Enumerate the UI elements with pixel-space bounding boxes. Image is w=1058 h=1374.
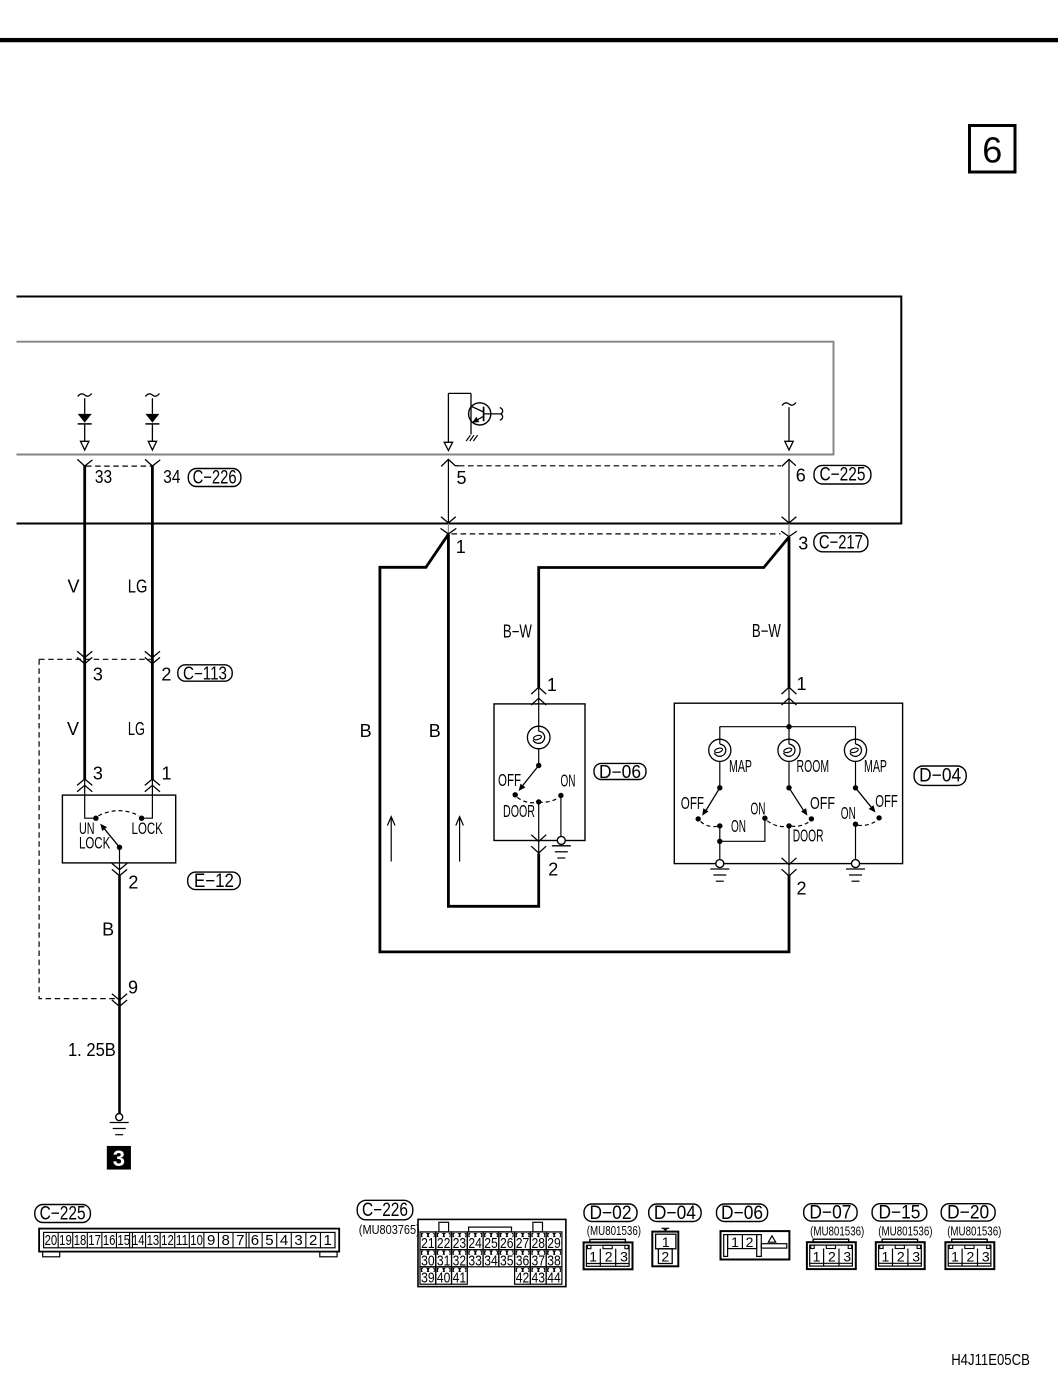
svg-text:2: 2 [796,879,806,899]
svg-text:44: 44 [547,1270,561,1287]
svg-text:(MU801536): (MU801536) [587,1223,641,1238]
switch MAP-left (D-04) [681,785,765,860]
svg-text:33: 33 [95,467,112,487]
svg-text:1: 1 [662,1234,670,1250]
svg-text:2: 2 [161,665,171,685]
connector label E-12 [188,871,241,892]
current arrow (right B wire) [456,817,464,862]
connector label C-225 [814,465,871,486]
svg-text:40: 40 [437,1270,451,1287]
lamp bulb MAP-left (D-04) [709,727,731,788]
connector C-113 pin 2 chevrons [145,651,160,664]
connector C-226 pin 33 chevron [77,459,92,466]
pin label 2 (D-04) [796,879,806,899]
part number MU803765 [359,1222,420,1237]
svg-text:2: 2 [128,872,138,892]
svg-text:3: 3 [843,1249,851,1265]
svg-text:8: 8 [222,1232,230,1249]
node 1 stub [447,524,449,534]
svg-text:B: B [102,919,114,939]
ON contact ground (D-04 left) [710,860,729,882]
svg-text:6: 6 [796,466,806,486]
pin label 1 (E-12) [161,764,171,784]
svg-text:19: 19 [59,1232,72,1249]
svg-text:3: 3 [620,1249,628,1265]
svg-text:D−02: D−02 [590,1203,632,1224]
lamp bulb (D-06) [527,726,550,749]
svg-text:10: 10 [190,1232,203,1249]
svg-text:14: 14 [132,1232,145,1249]
svg-text:H4J11E05CB: H4J11E05CB [951,1352,1030,1369]
DOOR contact wire (D-06) [538,802,540,855]
diode D1 (pin33 drive) [78,394,92,451]
wire label V (lower) [67,719,79,739]
svg-text:OFF: OFF [498,770,521,790]
diode D2 (pin34 drive) [145,394,159,451]
pin label 1 (C-217) [456,537,466,557]
page number box 6 [970,126,1016,173]
svg-text:B−W: B−W [503,622,532,642]
svg-text:V: V [67,577,79,597]
svg-text:1: 1 [456,537,466,557]
svg-text:1: 1 [796,674,806,694]
svg-text:C−226: C−226 [362,1200,408,1221]
svg-text:15: 15 [117,1232,130,1249]
C-217 dashed connector line [452,533,781,535]
connector label C-226 [188,468,241,489]
svg-text:(MU801536): (MU801536) [947,1224,1001,1239]
svg-text:C−225: C−225 [819,465,865,486]
svg-text:1. 25B: 1. 25B [68,1040,116,1060]
svg-text:V: V [67,719,79,739]
dashed harness boundary [39,659,116,998]
connector label D-20 [941,1202,995,1223]
connector D-04 pinout [652,1228,678,1266]
svg-text:C−225: C−225 [40,1204,86,1225]
svg-text:D−20: D−20 [947,1202,989,1223]
ground E-12 wire [110,1114,129,1135]
D-04 pin 2 chevrons [782,858,797,876]
switch (D-06) [498,766,576,821]
svg-text:(MU801536): (MU801536) [810,1224,864,1239]
svg-text:1: 1 [882,1249,890,1265]
connector D-02 pinout [584,1239,633,1269]
connector C-225 pin 6 arrow [782,459,796,523]
inner control-unit box [17,342,834,455]
pin label 2 (E-12) [128,872,138,892]
svg-text:3: 3 [93,665,103,685]
svg-text:D−07: D−07 [809,1202,851,1223]
svg-text:12: 12 [161,1232,174,1249]
part number MU801536 (D-02) [587,1223,641,1238]
connector label D-07 [804,1202,857,1223]
svg-text:ON: ON [731,816,746,836]
switch ROOM (D-04) [751,785,836,876]
svg-text:OFF: OFF [875,791,898,811]
svg-text:9: 9 [128,977,138,997]
C-113 dashed connector line [39,658,151,660]
svg-text:3: 3 [912,1249,920,1265]
svg-text:34: 34 [163,467,180,487]
svg-text:LG: LG [128,719,145,739]
connector label C-226 (bottom) [357,1200,413,1221]
svg-text:1: 1 [324,1232,332,1249]
svg-text:B: B [429,721,441,741]
wire label B-W (left) [503,622,532,642]
svg-text:9: 9 [207,1232,215,1249]
svg-text:ROOM: ROOM [797,756,830,776]
connector label C-217 [814,532,868,553]
svg-text:1: 1 [731,1234,739,1250]
pin label 2 (C-113) [161,665,171,685]
svg-text:OFF: OFF [810,793,835,813]
wire label B-W (right) [752,621,781,641]
part number MU801536 (D-20) [947,1224,1001,1239]
svg-text:D−04: D−04 [654,1203,696,1224]
connector D-15 pinout [876,1239,925,1269]
ground marker 3 [107,1146,131,1171]
connector D-20 pinout [945,1239,994,1269]
svg-text:C−226: C−226 [193,468,237,489]
svg-text:5: 5 [456,468,466,488]
lamp label ROOM [797,756,830,776]
svg-text:33: 33 [468,1252,482,1269]
svg-text:LOCK: LOCK [79,834,111,853]
connector C-217 pin 1 chevron [441,528,457,534]
svg-text:(MU801536): (MU801536) [878,1224,932,1239]
svg-text:2: 2 [605,1249,613,1265]
connector label D-04 (bottom) [649,1203,701,1224]
svg-text:2: 2 [828,1249,836,1265]
pin label 6 [796,466,806,486]
svg-text:DOOR: DOOR [503,801,535,821]
svg-text:(MU803765): (MU803765) [359,1222,420,1237]
pin label 3 (E-12) [93,764,103,784]
part number MU801536 (D-07) [810,1224,864,1239]
svg-text:39: 39 [421,1270,435,1287]
D-04 pin 1 chevrons [782,687,797,705]
transistor Q1 (lamp driver) [444,393,502,450]
svg-text:C−217: C−217 [819,532,863,553]
wire label B (left) [360,721,372,741]
svg-text:D−06: D−06 [599,762,641,782]
svg-text:D−04: D−04 [919,766,961,787]
wire: node3 to D-06 feed (B-W left) [539,537,789,688]
connector label D-04 [914,766,966,787]
body connector pin 9 chevrons [112,994,127,1007]
svg-text:1: 1 [951,1249,959,1265]
node 3 stub [788,524,790,537]
svg-text:41: 41 [453,1270,467,1287]
E-12 pin 2 chevrons [112,863,127,875]
lamp-switch link (D-06) [536,749,541,768]
svg-text:3: 3 [982,1249,990,1265]
connector C-225 pin 5 arrow [441,459,459,523]
wire label 1.25B [68,1040,116,1060]
pin label 9 [128,977,138,997]
page top rule [0,38,1058,42]
svg-text:35: 35 [500,1252,514,1269]
ON contact ground (D-06) [552,796,571,859]
connector C-225 pinout [39,1229,339,1257]
connector C-217 pin 3 chevron [781,531,797,537]
svg-text:17: 17 [88,1232,101,1249]
lamp label MAP (left) [729,756,752,776]
svg-text:2: 2 [897,1249,905,1265]
svg-text:1: 1 [547,675,557,695]
svg-text:34: 34 [484,1252,498,1269]
svg-text:43: 43 [532,1270,546,1287]
wire label B (right) [429,721,441,741]
svg-text:5: 5 [265,1232,273,1249]
svg-text:OFF: OFF [681,793,704,813]
lamp bulb ROOM (D-04) [778,727,800,788]
svg-text:6: 6 [251,1232,259,1249]
svg-text:ON: ON [561,771,576,791]
svg-text:DOOR: DOOR [793,826,824,846]
switch MAP-right (D-04) [841,785,898,860]
svg-text:1: 1 [813,1249,821,1265]
svg-text:42: 42 [516,1270,530,1287]
connector label D-15 [872,1202,927,1223]
wire: node3 to D-04 feed (B-W right) [788,537,791,688]
wire label LG (upper) [128,577,148,597]
connector label D-06 (bottom) [717,1203,768,1224]
svg-text:MAP: MAP [864,756,887,776]
svg-text:13: 13 [147,1232,160,1249]
connector label C-225 (bottom) [35,1204,91,1225]
key cylinder switch E-12 [62,777,175,877]
svg-text:2: 2 [967,1249,975,1265]
svg-text:MAP: MAP [729,756,752,776]
svg-text:ON: ON [841,803,856,823]
squiggle arrow (room lamp feed) [782,403,796,451]
connector D-07 pinout [807,1239,856,1269]
wire B (E-12 ground) [118,876,121,1114]
svg-text:1: 1 [161,764,171,784]
E-12 pin 1 chevrons [145,779,160,792]
connector C-226 pin 34 chevron [145,459,160,466]
connector C-113 pin 3 chevrons [77,651,92,664]
lamp bulb MAP-right (D-04) [844,727,866,788]
svg-text:11: 11 [176,1232,189,1249]
C-226 dashed connector line [86,465,151,467]
lamp label MAP (right) [864,756,887,776]
svg-text:3: 3 [294,1232,302,1249]
connector label D-06 [594,762,646,782]
current arrow (left B wire) [387,817,395,862]
svg-text:C−113: C−113 [183,664,227,684]
wire V (pin33 to E-12) [83,466,86,780]
pin label 3 (C-217) [798,534,808,554]
svg-text:1: 1 [589,1249,597,1265]
svg-text:16: 16 [103,1232,116,1249]
svg-text:18: 18 [74,1232,87,1249]
C-217 pin 1 chevron above [441,517,456,523]
connector D-06 pinout [721,1231,790,1259]
part number MU801536 (D-15) [878,1224,932,1239]
room lamp D-06 box [494,687,585,841]
ETACS-ECU outer box [17,297,902,524]
svg-text:E−12: E−12 [194,871,234,892]
pin label 1 (D-06) [547,675,557,695]
svg-text:2: 2 [548,860,558,880]
svg-text:B−W: B−W [752,621,781,641]
D-06 pin 1 chevrons [531,687,546,705]
wire: node1 to ground run (left B wire) [380,534,789,952]
room lamp D-04 box [674,687,902,864]
wire LG (pin34 to E-12) [151,466,154,780]
C-217 pin 3 chevron above [782,517,797,523]
C-225 dashed connector line [459,465,781,467]
pin label 5 [456,468,466,488]
svg-text:2: 2 [309,1232,317,1249]
D-06 pin 2 chevrons [531,835,546,853]
svg-text:3: 3 [798,534,808,554]
svg-text:7: 7 [236,1232,244,1249]
wire label LG (lower) [128,719,145,739]
svg-text:4: 4 [280,1232,288,1249]
svg-text:D−06: D−06 [721,1203,763,1224]
svg-text:LOCK: LOCK [132,819,164,838]
wire label V (upper) [67,577,79,597]
svg-text:ON: ON [751,799,766,819]
pin label 2 (D-06) [548,860,558,880]
svg-text:6: 6 [982,129,1002,170]
pin label 1 (D-04) [796,674,806,694]
svg-text:3: 3 [113,1146,125,1171]
connector label C-113 [178,664,232,684]
svg-text:3: 3 [93,764,103,784]
wire: node1 down / D-06 return (right B wire) [448,534,538,906]
svg-text:D−15: D−15 [878,1202,920,1223]
svg-text:20: 20 [45,1232,58,1249]
svg-text:2: 2 [661,1248,669,1264]
connector label D-02 [584,1203,637,1224]
svg-text:B: B [360,721,372,741]
ON contact ground (D-04 right) [846,860,865,882]
svg-text:LG: LG [128,577,148,597]
wire label B (ground wire) [102,919,114,939]
E-12 pin 3 chevrons [77,779,92,792]
pin label 3 (C-113) [93,665,103,685]
svg-text:2: 2 [746,1234,754,1250]
document number [951,1352,1030,1369]
pin label 33 [95,467,112,487]
pin label 34 [163,467,180,487]
connector C-226 pinout [418,1219,566,1286]
